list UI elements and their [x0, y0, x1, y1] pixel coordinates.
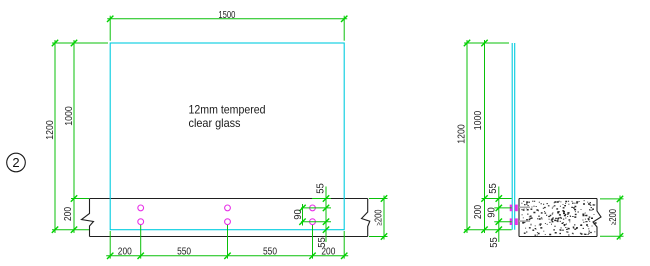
- svg-text:1000: 1000: [473, 110, 484, 130]
- svg-text:1500: 1500: [218, 10, 235, 21]
- svg-text:200: 200: [118, 247, 132, 258]
- svg-text:1200: 1200: [45, 120, 56, 140]
- svg-text:clear glass: clear glass: [189, 116, 241, 130]
- svg-text:1000: 1000: [64, 106, 75, 126]
- svg-text:90: 90: [486, 207, 497, 218]
- svg-text:200: 200: [473, 205, 484, 219]
- svg-text:200: 200: [321, 247, 335, 258]
- svg-text:90: 90: [293, 209, 304, 220]
- svg-text:550: 550: [177, 247, 191, 258]
- svg-text:55: 55: [315, 183, 326, 194]
- svg-text:55: 55: [488, 183, 499, 194]
- svg-text:2: 2: [12, 155, 19, 170]
- svg-text:200: 200: [63, 207, 74, 221]
- svg-text:≥200: ≥200: [608, 209, 619, 225]
- svg-text:1200: 1200: [456, 124, 467, 144]
- svg-text:550: 550: [263, 247, 277, 258]
- svg-text:55: 55: [489, 237, 500, 248]
- svg-text:≥200: ≥200: [373, 209, 384, 225]
- svg-text:12mm tempered: 12mm tempered: [189, 103, 266, 117]
